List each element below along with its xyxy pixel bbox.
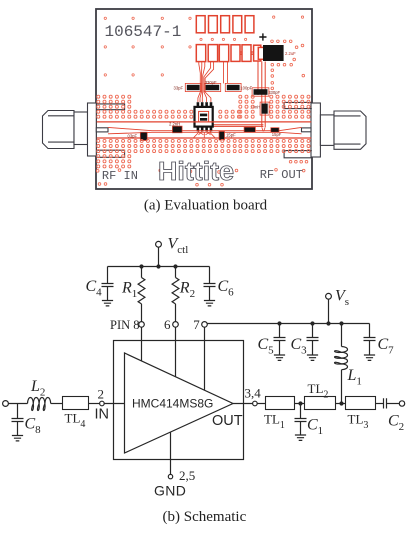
- transmission line TL1: [266, 397, 295, 410]
- transmission line TL2: [305, 397, 336, 410]
- wire Vs down: [328, 299, 330, 323]
- wire pin7 to Vs bus: [207, 323, 369, 325]
- ground C7: [364, 355, 375, 360]
- svg-text:33pF: 33pF: [174, 85, 184, 90]
- svg-text:03pF: 03pF: [128, 134, 138, 139]
- transmission line TL3: [346, 397, 376, 410]
- svg-text:330pF: 330pF: [268, 90, 280, 95]
- plus mark: [259, 33, 266, 40]
- gnd pin wire: [170, 432, 172, 475]
- pad link bars: [240, 52, 254, 54]
- svg-text:15pF: 15pF: [272, 132, 282, 137]
- svg-text:C2: C2: [388, 413, 404, 434]
- evaluation board outline: [96, 9, 312, 189]
- svg-text:(b) Schematic: (b) Schematic: [163, 509, 247, 525]
- wire input: [8, 403, 27, 405]
- wire pin2 into box: [105, 403, 125, 405]
- inductor L1: [341, 324, 343, 347]
- svg-text:2,5: 2,5: [179, 468, 195, 483]
- capacitor C2: [384, 398, 387, 408]
- wire Vctl bus: [108, 266, 210, 268]
- svg-text:3,4: 3,4: [245, 385, 262, 400]
- pin 8 circle: [139, 322, 145, 328]
- junction dot L1: [339, 401, 343, 405]
- svg-text:C6: C6: [218, 278, 235, 299]
- wire pin3,4 to TL1: [258, 403, 266, 405]
- IC package: [195, 107, 213, 127]
- svg-text:C5: C5: [258, 336, 275, 357]
- mid cap row 330pF: [206, 85, 220, 90]
- capacitor C5: [279, 324, 281, 338]
- capacitor C8: [17, 404, 19, 419]
- wire C2 to output: [387, 403, 400, 405]
- junction dots on Vs bus: [277, 321, 281, 325]
- svg-text:IN: IN: [95, 407, 110, 423]
- inductor L2: [28, 398, 51, 411]
- amplifier triangle: [125, 353, 234, 453]
- wire TL3 to C2: [376, 403, 384, 405]
- electrolytic cap C9 2.2uF: [258, 47, 269, 59]
- left connector pin: [96, 128, 108, 132]
- svg-text:C8: C8: [25, 415, 42, 436]
- svg-text:C4: C4: [86, 278, 103, 299]
- pin 3,4 circle: [253, 401, 258, 406]
- IC bottom pin fan traces: [194, 127, 266, 138]
- svg-text:TL1: TL1: [264, 412, 285, 432]
- red pad outlines: [185, 83, 269, 115]
- svg-text:RF IN: RF IN: [102, 169, 138, 183]
- pin 2 circle: [100, 401, 105, 406]
- svg-text:HMC414MS8G: HMC414MS8G: [132, 396, 213, 410]
- wire pin7 into IC: [204, 327, 206, 390]
- IC pins: [197, 102, 213, 131]
- svg-text:C3: C3: [291, 336, 308, 357]
- capacitor C1: [300, 404, 302, 419]
- wire pin6 into IC: [175, 327, 177, 376]
- svg-text:106547-1: 106547-1: [105, 23, 182, 41]
- resistor R2: [175, 267, 177, 278]
- capacitor C6: [209, 267, 211, 284]
- svg-text:OUT: OUT: [212, 413, 243, 429]
- via dot grids (decorative): [96, 16, 310, 186]
- svg-text:TL2: TL2: [308, 381, 329, 401]
- svg-text:GND: GND: [154, 483, 186, 499]
- dc block cap on trace: [244, 127, 255, 132]
- svg-text:R1: R1: [121, 280, 137, 301]
- svg-text:R2: R2: [179, 280, 195, 301]
- svg-text:Vs: Vs: [335, 288, 349, 309]
- svg-text:7: 7: [193, 317, 200, 332]
- svg-text:PIN 8: PIN 8: [110, 318, 140, 332]
- ground C3: [307, 355, 318, 360]
- wire apex to pin3,4: [233, 403, 252, 405]
- svg-text:Hittite: Hittite: [158, 158, 234, 186]
- bias ind 10nH: [262, 104, 268, 114]
- input terminal: [3, 401, 9, 407]
- top red pad row 2: [196, 45, 261, 62]
- ground C6: [204, 301, 215, 306]
- svg-text:15pF: 15pF: [226, 133, 236, 138]
- wire Vctl to bus: [158, 247, 160, 266]
- node Vctl terminal: [156, 241, 162, 247]
- wire L2 to TL4: [51, 403, 63, 405]
- right connector pin: [302, 128, 312, 132]
- svg-text:L2: L2: [30, 378, 45, 399]
- svg-text:100pF: 100pF: [240, 86, 252, 91]
- wire pin8 into IC: [141, 327, 143, 361]
- wire TL1 to TL2: [295, 403, 305, 405]
- ground C5: [274, 355, 285, 360]
- cap 330pF on bias branch: [254, 89, 268, 95]
- series cap 0.3pF on trace: [140, 132, 147, 140]
- right SMA connector: [311, 103, 366, 157]
- wire TL2 to TL3: [336, 403, 346, 405]
- board ground pad outlines: [96, 102, 311, 157]
- svg-text:330pF: 330pF: [205, 80, 217, 85]
- ground C1: [295, 435, 306, 440]
- RF microstrip trace: [108, 127, 302, 133]
- svg-text:(a) Evaluation board: (a) Evaluation board: [144, 198, 268, 214]
- resistor R1: [141, 267, 143, 278]
- shunt cap 15pF: [219, 131, 225, 140]
- svg-text:6: 6: [164, 317, 171, 332]
- ground C8: [12, 436, 23, 441]
- svg-text:Vctl: Vctl: [168, 236, 189, 257]
- svg-text:L1: L1: [347, 367, 362, 388]
- transmission line TL4: [63, 397, 89, 410]
- capacitor C7: [369, 324, 371, 338]
- mid cap row 100pF: [227, 85, 240, 90]
- capacitor C3: [312, 324, 314, 338]
- svg-text:RF OUT: RF OUT: [260, 168, 303, 182]
- left SMA connector: [43, 103, 97, 156]
- gnd pin circle: [168, 474, 172, 478]
- svg-text:TL4: TL4: [65, 411, 86, 431]
- junction dot C1: [298, 401, 302, 405]
- top red pad row 1: [196, 16, 254, 33]
- mid cap row 33pF: [187, 85, 200, 90]
- pin 7 circle: [202, 322, 208, 328]
- output cap 15pF: [271, 128, 279, 133]
- svg-text:2.2nH: 2.2nH: [169, 121, 180, 126]
- output terminal: [399, 401, 404, 406]
- ground plane edge lines: [97, 121, 311, 123]
- capacitor C4: [107, 267, 109, 284]
- node Vs terminal: [326, 293, 332, 299]
- ground C4: [102, 301, 113, 306]
- wire TL4 to pin2: [89, 403, 100, 405]
- op-amp U1 HMC414MS8G box: [114, 341, 244, 460]
- svg-text:C7: C7: [378, 336, 395, 357]
- vertical bias traces: [205, 62, 265, 128]
- svg-text:C1: C1: [307, 417, 323, 438]
- svg-text:2.2uF: 2.2uF: [285, 51, 296, 56]
- svg-text:TL3: TL3: [348, 412, 369, 432]
- svg-text:2: 2: [98, 386, 105, 401]
- series ind 2.2nH on trace: [172, 126, 182, 133]
- trace fan from pads to IC: [198, 62, 228, 103]
- pin 6 circle: [173, 322, 179, 328]
- junction dots on Vctl bus: [139, 264, 143, 268]
